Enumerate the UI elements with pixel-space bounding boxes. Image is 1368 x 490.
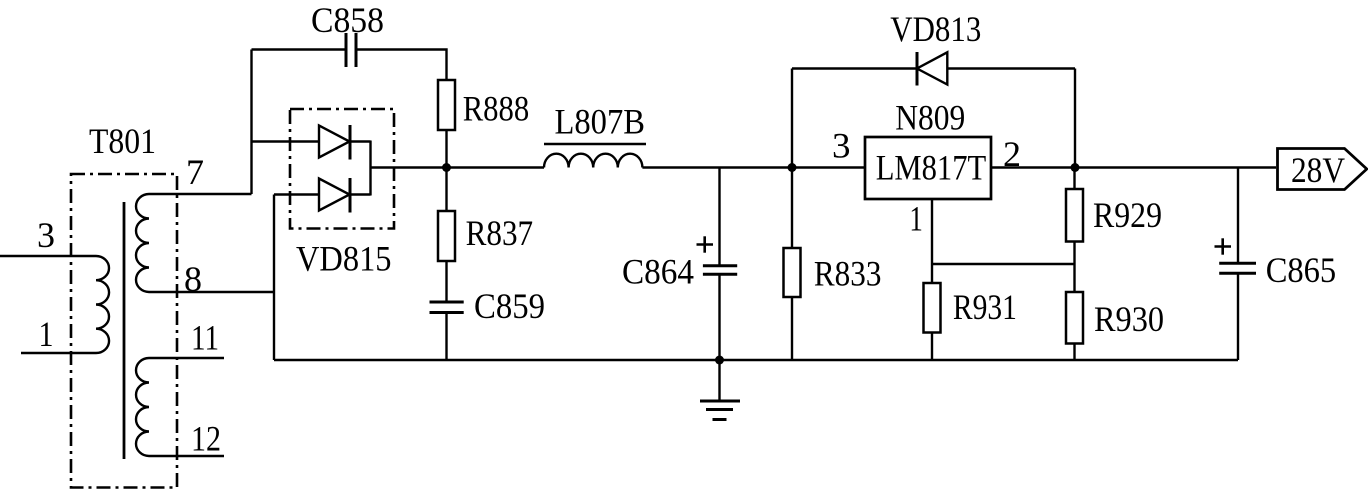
wire C864 top lead: [718, 168, 720, 266]
svg-text:T801: T801: [89, 121, 156, 161]
diode VD813 cathode bar: [916, 52, 919, 86]
node 28V output flag: [1278, 149, 1367, 190]
svg-text:R837: R837: [466, 213, 533, 253]
resistor R930: [1066, 292, 1083, 344]
wire pin 3 lead: [0, 255, 96, 257]
wire top diode cathode: [350, 140, 371, 142]
wire ground stem: [718, 360, 720, 400]
wire VD813 right riser: [1074, 69, 1076, 168]
wire R888 to node A: [445, 130, 447, 168]
svg-text:R930: R930: [1094, 299, 1164, 339]
inductor L807B: [544, 154, 642, 168]
wire VD815 output bar: [369, 141, 371, 196]
wire VD813 top right: [947, 67, 1075, 69]
svg-text:R931: R931: [953, 287, 1017, 327]
wire node A to L807B: [447, 166, 545, 168]
svg-text:7: 7: [186, 152, 204, 192]
svg-text:N809: N809: [895, 97, 965, 137]
wire pin8 drop to ground rail: [273, 195, 275, 361]
wire pin 8: [149, 291, 274, 293]
resistor R833: [784, 248, 801, 297]
wire LM817T pin 2 to node C: [991, 166, 1276, 168]
wire pin 1 lead: [21, 352, 96, 354]
wire C859 to ground rail: [445, 313, 447, 361]
resistor R929: [1066, 189, 1083, 242]
capacitor C865: [1219, 263, 1256, 273]
svg-text:28V: 28V: [1291, 150, 1345, 190]
wire bottom diode anode: [274, 193, 319, 195]
transformer T801 box: [71, 174, 177, 488]
wire node B to R833: [791, 168, 793, 249]
wire C858 left lead: [252, 48, 345, 50]
svg-text:L807B: L807B: [555, 101, 646, 141]
wire R931 top lead: [931, 264, 933, 283]
svg-text:C865: C865: [1266, 250, 1337, 290]
wire node C to R929: [1073, 168, 1075, 190]
wire R929 to pin1 net: [1073, 242, 1075, 293]
wire VD813 top left: [792, 67, 917, 69]
svg-text:C858: C858: [311, 0, 384, 40]
wire LM817T pin 1 drop: [931, 199, 933, 264]
svg-text:12: 12: [191, 419, 221, 459]
svg-text:1: 1: [39, 314, 54, 354]
resistor R837: [438, 211, 455, 261]
wire C865 bottom lead: [1237, 273, 1239, 360]
svg-text:3: 3: [832, 126, 851, 166]
wire pin7 riser to C858: [250, 50, 252, 195]
capacitor C858: [346, 33, 356, 67]
svg-text:C859: C859: [474, 286, 545, 326]
wire top diode anode: [252, 140, 320, 142]
resistor R931: [924, 283, 941, 333]
svg-text:R929: R929: [1093, 195, 1162, 235]
inductor L807B bar: [544, 143, 646, 146]
wire VD815 output to node A: [371, 166, 447, 168]
wire C858 right lead to R888: [358, 50, 447, 81]
wire R930 to ground rail: [1073, 344, 1075, 361]
ground: [700, 401, 740, 420]
capacitor C859: [430, 302, 464, 313]
diode VD815b cathode bar: [349, 178, 352, 213]
wire L807B to LM817T pin 3: [642, 166, 865, 168]
diode VD815a: [319, 126, 350, 158]
wire pin 7: [149, 193, 252, 195]
wire bottom diode cathode: [350, 193, 371, 195]
svg-text:8: 8: [184, 259, 202, 299]
capacitor C865 plus sign: [1215, 238, 1232, 254]
wire pin 11: [149, 357, 224, 359]
transformer T801 core: [123, 202, 126, 459]
wire R931 to ground rail: [931, 333, 933, 361]
transformer T801 primary winding: [96, 256, 109, 353]
wire pin1 horizontal net: [932, 263, 1075, 265]
wire R837 to C859: [445, 261, 447, 302]
node C junction dot: [1071, 163, 1080, 172]
transformer T801 secondary winding bottom (pins 11-12): [136, 358, 149, 456]
resistor R888: [438, 80, 455, 130]
node B junction dot: [788, 163, 797, 172]
svg-text:R833: R833: [814, 253, 882, 293]
node A junction dot: [442, 163, 451, 172]
wire R833 to ground rail: [791, 297, 793, 360]
svg-text:3: 3: [37, 215, 55, 255]
wire VD813 left riser: [791, 69, 793, 168]
svg-text:VD815: VD815: [296, 239, 392, 279]
transformer T801 secondary winding top (pins 7-8): [136, 194, 149, 292]
ground rail: [274, 359, 1238, 361]
wire C864 bottom lead: [718, 274, 720, 360]
node ground junction dot: [715, 356, 724, 365]
wire pin 12: [149, 455, 224, 457]
capacitor C864: [703, 266, 737, 275]
svg-text:LM817T: LM817T: [876, 148, 987, 188]
wire node A to R837: [445, 168, 447, 212]
svg-text:R888: R888: [463, 88, 530, 128]
rectifier VD815 box: [290, 109, 394, 229]
svg-text:C864: C864: [622, 252, 694, 292]
diode VD813: [917, 52, 947, 84]
svg-text:1: 1: [909, 198, 923, 238]
diode VD815a cathode bar: [349, 125, 352, 160]
svg-text:VD813: VD813: [890, 9, 981, 49]
capacitor C864 plus sign: [697, 236, 714, 252]
diode VD815b: [319, 179, 350, 211]
wire C865 top lead: [1237, 168, 1239, 264]
svg-text:11: 11: [191, 318, 219, 358]
regulator U LM817T box: [865, 137, 991, 199]
